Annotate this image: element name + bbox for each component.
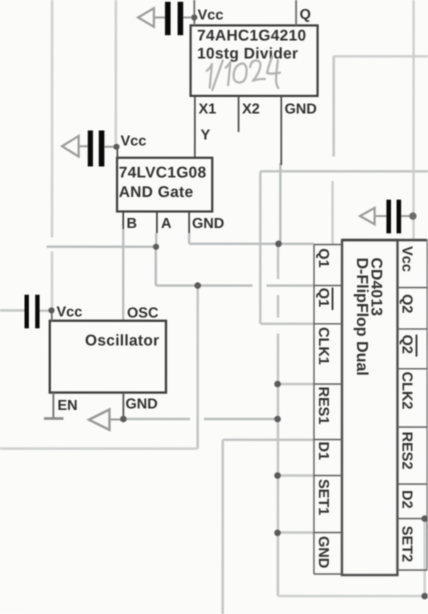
junction dot U2 Vcc <box>113 144 119 150</box>
wire D1 net horizontal to pin <box>223 439 314 442</box>
svg-text:GND: GND <box>125 396 157 412</box>
capacitor C2 left plate <box>88 130 93 166</box>
svg-text:Q1: Q1 <box>315 248 331 267</box>
pin Q stub U1 <box>295 0 297 25</box>
ground symbol at capacitor C4 <box>360 208 375 224</box>
svg-text:D1: D1 <box>315 442 331 461</box>
wire net A horizontal to Q1bar left segment <box>156 284 253 286</box>
wire C4 ground stub <box>375 215 387 217</box>
wire Vcc rail to AND gate vertical <box>115 0 118 143</box>
svg-text:D-FlipFlop Dual: D-FlipFlop Dual <box>353 258 370 376</box>
svg-text:A: A <box>161 216 172 232</box>
svg-text:Q: Q <box>300 7 311 23</box>
junction dot GND pin net <box>274 530 281 537</box>
wire CLK1 net top horizontal <box>260 170 428 173</box>
svg-text:Vcc: Vcc <box>56 304 82 320</box>
svg-text:74LVC1G08: 74LVC1G08 <box>119 164 207 181</box>
wire net A vertical below pin A <box>155 247 157 286</box>
svg-text:RES2: RES2 <box>398 432 414 470</box>
pin EN stub U3 <box>52 393 54 418</box>
pin X1 stub U1 joined to Y <box>194 96 196 158</box>
svg-text:Vcc: Vcc <box>121 134 147 150</box>
U4 right pin column edge <box>426 240 428 570</box>
wire CD4013 Vcc vertical <box>412 0 414 239</box>
pin Vcc stub U1 <box>193 0 195 25</box>
junction dot SET1 <box>274 472 281 479</box>
wire CLK1 net vertical <box>259 171 262 323</box>
pin tick SET2 <box>397 518 427 520</box>
junction dot C4 Vcc <box>409 212 416 219</box>
svg-text:Q2: Q2 <box>398 335 414 354</box>
pin tick Q1 <box>314 244 342 246</box>
svg-text:X2: X2 <box>242 102 260 118</box>
wire oscillator GND horizontal left segment <box>123 418 190 420</box>
svg-text:Q2: Q2 <box>398 294 414 313</box>
svg-text:GND: GND <box>285 102 317 118</box>
wire Vcc rail left vertical upper <box>51 0 54 237</box>
wire AND GND pin vertical <box>188 233 190 244</box>
svg-text:D2: D2 <box>398 490 414 509</box>
U4 left pin column edge <box>313 245 315 575</box>
right pin column bottom <box>397 569 427 571</box>
capacitor C3 left plate <box>24 295 28 329</box>
pin tick Q1bar <box>314 285 342 287</box>
junction dot net A branch <box>194 282 201 289</box>
wire GND net long vertical segment 2 <box>277 295 280 318</box>
svg-text:AND Gate: AND Gate <box>119 184 194 201</box>
capacitor C1 right plate <box>178 2 184 35</box>
wire GND net bottom horizontal <box>278 595 428 598</box>
wire net A branch bottom horizontal to left edge <box>0 447 198 450</box>
wire CLK1 net horizontal to pin <box>260 323 314 326</box>
svg-text:RES1: RES1 <box>315 387 331 425</box>
wire GND net long vertical segment 1 <box>277 244 280 279</box>
svg-text:Oscillator: Oscillator <box>85 332 160 349</box>
wire GND net horizontal to Q1 <box>189 243 314 245</box>
wire GND net riser to SET2 <box>423 519 426 597</box>
svg-text:74AHC1G4210: 74AHC1G4210 <box>197 27 306 44</box>
IC U3 oscillator box <box>50 321 166 393</box>
svg-text:GND: GND <box>192 216 224 232</box>
junction dot bottom right corner <box>421 593 428 600</box>
junction dot net A at pin A <box>153 244 159 250</box>
ground symbol at capacitor C2 <box>62 136 79 157</box>
svg-text:GND: GND <box>315 536 331 568</box>
wire capacitor C3 to Vcc junction <box>39 309 50 312</box>
wire C4 to Vcc line <box>401 215 410 217</box>
svg-text:Q1: Q1 <box>315 288 331 307</box>
wire D1 net vertical to bottom edge <box>221 440 224 614</box>
wire net A horizontal to Q1bar right segment <box>267 284 315 286</box>
junction dot U3 Vcc <box>48 307 54 313</box>
wire divider Q net vertical lower <box>331 181 333 245</box>
pin Vcc stub U3 <box>51 310 53 320</box>
wire U3 ground stub <box>109 418 120 420</box>
overline for Q1bar <box>331 288 333 311</box>
pin GND stub U2 <box>188 211 190 233</box>
pin tick RES2 <box>397 426 427 428</box>
svg-text:EN: EN <box>57 398 77 414</box>
pin tick Q2bar <box>397 328 427 330</box>
wire net A branch vertical <box>196 286 199 449</box>
wire B to OSC vertical <box>122 229 124 321</box>
pin tick SET1 <box>314 475 342 477</box>
svg-text:CLK1: CLK1 <box>315 327 331 365</box>
wire C2 ground stub <box>79 145 88 147</box>
IC U4 CD4013 main box <box>342 240 398 575</box>
capacitor C2 right plate <box>99 130 105 166</box>
pin Vcc stub U2 <box>116 147 118 158</box>
capacitor C4 left plate <box>386 200 391 234</box>
svg-text:B: B <box>127 216 137 232</box>
wire divider Q net top horizontal <box>334 55 428 58</box>
pin tick Q2 <box>398 287 428 289</box>
capacitor C3 right plate <box>35 295 39 329</box>
pin B stub U2 <box>122 211 124 229</box>
EN termination bar <box>44 417 63 420</box>
svg-text:Vcc: Vcc <box>399 246 415 272</box>
pin X2 stub U1 <box>238 96 240 132</box>
junction dot GND net at divider GND <box>275 241 282 248</box>
wire C1 to Vcc junction <box>183 16 191 18</box>
IC U4 top edge over right pin column <box>342 239 427 242</box>
pin GND stub U3 <box>122 393 124 419</box>
svg-text:OSC: OSC <box>127 305 159 321</box>
svg-text:SET2: SET2 <box>398 526 414 562</box>
junction dot U1 Vcc <box>191 14 197 20</box>
wire GND net GND pin branch <box>278 531 314 534</box>
wire Vcc rail left vertical lower <box>51 251 54 307</box>
handwritten annotation 1/1024 <box>206 56 281 91</box>
junction dot RES1 <box>274 381 281 388</box>
junction dot oscillator GND net <box>274 416 281 423</box>
junction dot SET2 <box>421 515 428 522</box>
pin tick D2 <box>397 483 427 485</box>
junction dot U3 GND <box>120 416 127 423</box>
pin tick CLK1 <box>314 323 342 325</box>
svg-text:Y: Y <box>201 127 211 143</box>
svg-text:10stg Divider: 10stg Divider <box>197 45 298 62</box>
wire divider GND vertical <box>279 163 281 244</box>
svg-text:Vcc: Vcc <box>198 7 224 23</box>
pin tick RES1 <box>314 383 342 385</box>
wire capacitor C3 left to edge <box>0 309 24 312</box>
overline for Q2bar <box>415 335 417 357</box>
wire GND net RES1 branch <box>278 383 314 386</box>
ground symbol at U3 GND <box>89 409 110 430</box>
wire C1 ground stub <box>154 16 165 18</box>
svg-text:SET1: SET1 <box>315 479 331 515</box>
ground symbol at capacitor C1 <box>138 8 154 27</box>
capacitor C1 left plate <box>165 2 171 35</box>
pin A stub U2 <box>156 211 158 233</box>
svg-text:X1: X1 <box>199 101 217 117</box>
pin GND stub U1 <box>280 96 282 165</box>
wire C2 to Vcc junction <box>104 146 113 148</box>
pin tick D1 <box>314 439 342 441</box>
wire oscillator GND horizontal right segment <box>204 418 278 420</box>
IC U2 74LVC1G08 AND gate box <box>117 158 212 212</box>
IC U1 74AHC1G4210 divider box <box>191 25 318 96</box>
pin tick CLK2 <box>397 368 427 370</box>
wire net A horizontal <box>47 246 156 248</box>
wire AND pin A vertical to junction <box>155 233 157 247</box>
wire divider Q net vertical upper <box>332 56 335 156</box>
wire GND net SET1 branch <box>278 474 314 477</box>
pin tick GND <box>314 532 342 534</box>
capacitor C4 right plate <box>397 200 402 234</box>
wire GND net long vertical segment 3 <box>277 334 280 597</box>
left pin column bottom <box>314 573 342 575</box>
svg-text:CLK2: CLK2 <box>398 372 414 410</box>
